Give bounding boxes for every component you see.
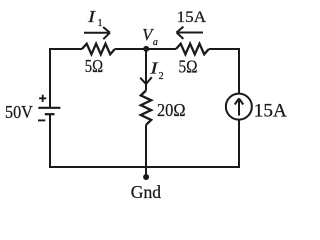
wire right upper: [238, 48, 240, 94]
svg-text:a: a: [153, 37, 158, 48]
current source U1 circle: [226, 94, 252, 120]
battery V1 long plate: [38, 107, 60, 109]
wire middle lower: [145, 125, 147, 175]
current source U1 arrow: [235, 99, 244, 116]
wire right lower: [238, 120, 240, 168]
svg-text:15A: 15A: [254, 102, 288, 122]
svg-text:5Ω: 5Ω: [179, 56, 198, 76]
wire top-middle segment: [115, 48, 176, 50]
svg-text:20Ω: 20Ω: [157, 100, 186, 120]
resistor R1: [82, 44, 115, 55]
wire left lower: [49, 114, 51, 168]
svg-text:50V: 50V: [5, 102, 33, 122]
svg-text:15A: 15A: [177, 8, 207, 26]
svg-text:I: I: [87, 7, 97, 26]
current arrow I2 head: [140, 77, 152, 84]
wire bottom rail: [49, 166, 240, 168]
minus sign: [38, 119, 45, 121]
svg-text:5Ω: 5Ω: [85, 56, 103, 76]
wire top-left segment: [49, 48, 82, 50]
wire left upper: [49, 48, 51, 108]
current arrow 15A left: [177, 27, 204, 39]
plus sign: [39, 95, 46, 102]
resistor R2: [176, 44, 209, 55]
svg-text:1: 1: [98, 18, 103, 29]
ground node dot: [143, 174, 149, 180]
resistor R3: [141, 91, 151, 125]
node Va dot: [143, 46, 149, 52]
svg-text:2: 2: [159, 71, 164, 82]
svg-text:Gnd: Gnd: [131, 182, 161, 202]
wire middle upper: [145, 49, 147, 91]
battery V1 short plate: [45, 113, 55, 115]
current arrow I1: [84, 27, 110, 39]
wire top-right segment: [209, 48, 240, 50]
